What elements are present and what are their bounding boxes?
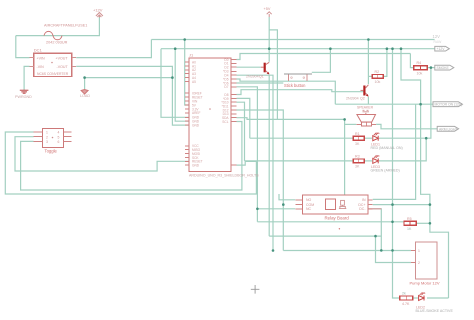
svg-text:+12V: +12V xyxy=(93,8,103,13)
svg-text:GND: GND xyxy=(192,164,200,168)
svg-text:2: 2 xyxy=(418,261,420,265)
svg-text:Pump Motor 12V: Pump Motor 12V xyxy=(410,281,440,286)
node NC junction xyxy=(256,208,259,211)
wire toggle row3 wrap to SCL xyxy=(21,122,242,191)
resistor R6 xyxy=(400,296,413,300)
wire R2 left stub xyxy=(368,75,372,77)
wire D4 riser to pump line xyxy=(237,75,274,250)
svg-text:DC-: DC- xyxy=(359,207,366,211)
wire button line from D5 xyxy=(237,79,336,104)
svg-text:1: 1 xyxy=(46,131,48,135)
node rail2-R5 drop xyxy=(400,47,403,50)
svg-text:4.7K: 4.7K xyxy=(402,302,410,306)
node pump line x392 xyxy=(391,249,394,252)
node rail2-GND riser xyxy=(174,47,177,50)
svg-text:10k: 10k xyxy=(375,80,381,84)
wire gnd return y=236.1 xyxy=(269,235,381,237)
svg-text:5: 5 xyxy=(58,135,60,139)
svg-text:+5V: +5V xyxy=(264,7,271,11)
ground DGND xyxy=(20,90,29,94)
wire rail3 drop to R4 left xyxy=(410,54,413,68)
svg-text:GREEN (ARMED): GREEN (ARMED) xyxy=(371,169,400,173)
wire main right rail drop x=392.5 xyxy=(393,49,400,298)
svg-text:D7: D7 xyxy=(224,85,228,89)
wire +5V symbol riser to Q1 collector xyxy=(268,17,270,62)
svg-text:MOTOR ON (12V): MOTOR ON (12V) xyxy=(435,103,463,107)
wire rail3 y=53.5 from D0 xyxy=(237,54,411,60)
wire +5V rail y=48.7 xyxy=(161,48,435,50)
svg-text:ARM LIGHT: ARM LIGHT xyxy=(439,127,457,131)
node R5 out xyxy=(429,222,432,225)
wire pump pin1 line xyxy=(283,250,411,252)
svg-text:RED (MANUAL ON): RED (MANUAL ON) xyxy=(371,146,403,150)
wire -VOUT line xyxy=(76,66,188,125)
wire LED1 right to R4 riser xyxy=(379,68,431,139)
wire +5V branch to speaker riser xyxy=(269,30,277,120)
wire Q2 emitter to motor line xyxy=(367,97,369,104)
wire LED2 right wrap xyxy=(379,138,426,161)
LED2 blue xyxy=(419,292,426,301)
svg-text:1K: 1K xyxy=(407,227,412,231)
svg-text:A5: A5 xyxy=(192,80,196,84)
svg-text:1: 1 xyxy=(418,249,420,253)
svg-text:Q2: Q2 xyxy=(360,97,365,101)
svg-text:2N3904: 2N3904 xyxy=(246,75,259,79)
wire relay COM from D12 xyxy=(237,110,284,251)
resistor R2 xyxy=(372,75,383,79)
wire relay NC loop from D7 xyxy=(237,87,258,222)
pump motor M1 xyxy=(411,242,437,279)
LED3 green xyxy=(373,155,380,164)
wire +12V rail y=39.5 xyxy=(151,39,434,41)
svg-text:Toggle: Toggle xyxy=(45,149,58,154)
svg-text:LOAD: LOAD xyxy=(80,94,90,98)
resistor R5 xyxy=(404,221,416,225)
wire +VOUT to +12V rail riser xyxy=(76,40,151,58)
wire speaker riser down to relay top xyxy=(344,119,346,195)
wire rail drop x=330.7 to button xyxy=(312,49,331,73)
arduino right pin labels xyxy=(221,58,229,124)
svg-text:ARDUINO_UNO_R3_SHIELDBOR_HOLTS: ARDUINO_UNO_R3_SHIELDBOR_HOLTS xyxy=(189,173,259,177)
svg-text:R5: R5 xyxy=(407,217,412,221)
wire relay DC+ line xyxy=(373,204,430,206)
wire LED2 mid xyxy=(364,160,372,162)
ground LOAD xyxy=(81,90,88,95)
wire LED1 riser from D9 xyxy=(237,98,250,138)
wire LED1 mid xyxy=(364,137,372,139)
flag F2 MOTOR xyxy=(433,102,462,107)
button S1 xyxy=(284,73,312,75)
svg-text:2: 2 xyxy=(46,135,48,139)
svg-text:NC6S CONVERTER: NC6S CONVERTER xyxy=(37,72,69,76)
svg-text:AIRCRAFTPANELFUSE1: AIRCRAFTPANELFUSE1 xyxy=(44,23,87,27)
dc converter DC1 xyxy=(34,53,72,76)
svg-text:RAW: RAW xyxy=(434,40,443,44)
node motor line x=420.6 xyxy=(419,103,422,106)
svg-text:Q1: Q1 xyxy=(259,75,264,79)
svg-text:NO: NO xyxy=(306,198,312,202)
node R5 line x392 xyxy=(391,221,394,224)
svg-text:Stick button: Stick button xyxy=(284,83,306,88)
wire Q1 base from D2 xyxy=(237,66,261,68)
svg-text:BLUE-SMOKE ACTIVE: BLUE-SMOKE ACTIVE xyxy=(416,309,454,313)
svg-text:DC1: DC1 xyxy=(34,48,43,53)
svg-text:Relay Board: Relay Board xyxy=(325,216,350,221)
svg-text:+12V: +12V xyxy=(437,47,446,51)
wire R4 right to flag F1 xyxy=(427,67,434,69)
wire fuse left to DC1 +VIN xyxy=(16,36,30,58)
wire D6 line to COM riser xyxy=(237,82,284,84)
node rail2-Q1 xyxy=(268,47,271,50)
node LED wrap xyxy=(425,137,428,140)
origin cross xyxy=(251,285,260,294)
wire relay DC- drop xyxy=(373,209,382,251)
relay board U2 xyxy=(295,195,372,214)
wire 5V riser from rail1 xyxy=(185,40,189,106)
svg-text:SMOKE: SMOKE xyxy=(437,66,450,70)
svg-text:IN: IN xyxy=(362,198,366,202)
wire Q2 collector riser from rail xyxy=(367,40,369,85)
LED1 red xyxy=(373,132,380,141)
toggle switch S2 xyxy=(34,128,72,147)
wire rail drop x=401 jog to R5 path xyxy=(401,49,449,298)
node rail2-button xyxy=(329,47,332,50)
svg-text:R4: R4 xyxy=(417,61,422,65)
power +5V xyxy=(267,12,272,17)
node rail1-VIN xyxy=(183,38,186,41)
node -VOUT drop xyxy=(171,76,174,79)
wire rail left end to GND pin xyxy=(161,49,189,118)
wire DC1 -VIN to DGND xyxy=(24,66,30,89)
svg-text:GND: GND xyxy=(192,124,200,128)
svg-text:10k: 10k xyxy=(417,72,423,76)
node gnd line x375 xyxy=(374,235,377,238)
flag F0 +12V xyxy=(435,46,450,51)
flag F3 ARM xyxy=(437,126,458,131)
fuse F1 xyxy=(44,31,62,39)
svg-text:6: 6 xyxy=(58,140,60,144)
flag F1 SMOKE xyxy=(435,65,454,70)
svg-text:3: 3 xyxy=(46,140,48,144)
svg-text:AREF: AREF xyxy=(192,111,201,115)
node LOAD branch xyxy=(83,76,86,79)
wire speaker pin1 jog xyxy=(345,123,357,125)
wire LED2 line left xyxy=(245,160,354,162)
svg-text:PWRGND: PWRGND xyxy=(15,95,32,99)
node pump line x273 xyxy=(272,249,275,252)
resistor R1 (led1) xyxy=(353,136,364,140)
svg-text:R2: R2 xyxy=(375,70,380,74)
svg-text:-VOUT: -VOUT xyxy=(57,65,69,69)
wire speaker pin2 to ARM flag xyxy=(376,124,437,128)
wire LED2 riser from D10 xyxy=(237,102,245,161)
wire relay IN to motor line xyxy=(373,104,416,199)
power +12V xyxy=(96,13,103,18)
node DC+ x430 xyxy=(429,203,432,206)
svg-text:2042 093UR: 2042 093UR xyxy=(46,40,68,44)
wire pump pin2 from gnd line xyxy=(376,236,412,262)
wire NC pin line xyxy=(257,208,295,210)
svg-text:12V: 12V xyxy=(433,34,441,39)
svg-text:3K: 3K xyxy=(355,165,360,169)
node COM junction xyxy=(282,203,285,206)
node pump line DC- xyxy=(380,249,383,252)
wire LED2b right wrap xyxy=(427,297,449,299)
svg-text:SCL: SCL xyxy=(222,120,228,124)
svg-text:-VIN: -VIN xyxy=(37,65,45,69)
svg-text:R3: R3 xyxy=(355,155,360,159)
svg-text:3K: 3K xyxy=(355,142,360,146)
svg-text:2k: 2k xyxy=(402,292,406,296)
wire R5 right stub xyxy=(416,222,430,224)
wire +12V stem to fuse xyxy=(16,17,100,36)
svg-text:SPEAKER: SPEAKER xyxy=(357,106,374,110)
wire rail drop to GND pin xyxy=(175,49,188,122)
wire Q2 base from D8 xyxy=(237,90,364,95)
svg-text:+VOUT: +VOUT xyxy=(56,56,69,60)
wire SDA jog to speaker line xyxy=(237,118,345,120)
svg-text:2N3904: 2N3904 xyxy=(346,97,359,101)
node rail2-main drop xyxy=(391,47,394,50)
wire R6 to LED2b xyxy=(413,297,418,299)
wire relay NO from toggle line xyxy=(279,194,295,200)
resistor R4 xyxy=(414,66,428,70)
wire toggle row2 wrap to RESET xyxy=(15,137,189,171)
relay icon xyxy=(339,200,346,208)
node rail1-Q2 xyxy=(367,38,370,41)
svg-text:R1: R1 xyxy=(355,132,360,136)
wire LOAD branch y=77.6 xyxy=(85,78,173,90)
wire MOTOR line y=104.2 to flag F2 xyxy=(335,103,433,105)
node speaker branch xyxy=(343,118,346,121)
transistor Q2 xyxy=(361,85,369,97)
transistor Q1 xyxy=(261,62,269,74)
arduino left pin labels xyxy=(192,60,203,167)
arduino U1 xyxy=(189,58,231,171)
wire R5 feed line y=221.8 xyxy=(257,221,404,223)
node DC+ x392 xyxy=(391,203,394,206)
wire R2 right to rail2 xyxy=(383,49,387,77)
svg-text:NC: NC xyxy=(306,207,312,211)
arduino left pin stubs xyxy=(185,62,189,165)
resistor R3 (led2) xyxy=(353,159,364,163)
node rail2-R2 xyxy=(386,47,389,50)
wire LED1 line left xyxy=(250,137,353,139)
arduino right pin stubs xyxy=(231,60,237,166)
wire toggle row1 wrap to GND xyxy=(5,132,256,194)
node R4 out xyxy=(430,66,433,69)
svg-text:4: 4 xyxy=(58,131,60,135)
wire Q1 emitter drop xyxy=(268,75,270,236)
svg-text:+VIN: +VIN xyxy=(37,56,45,60)
